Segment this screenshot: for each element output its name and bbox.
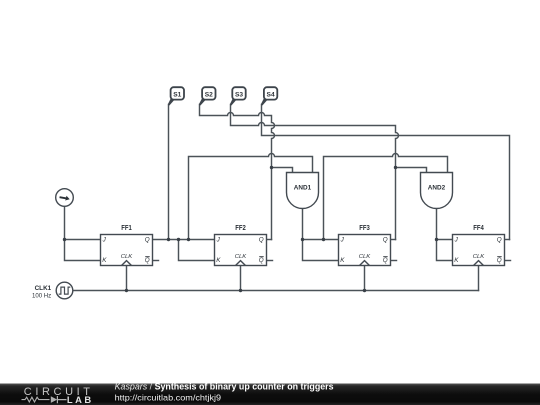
wire S2 probe to Q2 node [200, 105, 275, 240]
svg-text:FF3: FF3 [359, 225, 370, 232]
svg-text:Q: Q [497, 237, 502, 244]
svg-text:AND1: AND1 [294, 184, 312, 191]
flip-flop FF2 Qbar overline [259, 256, 264, 258]
flip-flop FF4 clock triangle [474, 261, 484, 266]
svg-text:Q: Q [259, 237, 264, 244]
svg-text:CLK: CLK [235, 254, 248, 260]
wire FF1 Qbar stub [153, 260, 159, 262]
wire FF2 CLK pin [240, 266, 242, 291]
footer CircuitLab logo text [24, 386, 92, 405]
svg-text:FF2: FF2 [235, 225, 246, 232]
wire K3 drop to FF3 K [303, 240, 339, 261]
probe S3 tail [230, 96, 237, 105]
wire FF3 CLK pin [364, 266, 366, 291]
svg-text:CLK: CLK [359, 254, 372, 260]
node J4 junction [435, 238, 438, 241]
op-amp AND2 gate body [421, 173, 453, 209]
svg-text:S2: S2 [205, 92, 213, 99]
wire source V1 to node J1 [64, 206, 66, 239]
svg-text:S4: S4 [267, 92, 275, 99]
flip-flop FF2 clock triangle [236, 261, 246, 266]
probe S3 box [232, 87, 245, 99]
footer logo diode [51, 396, 57, 403]
wire Q4 stub [505, 239, 510, 241]
svg-text:AND2: AND2 [428, 184, 446, 191]
node J1 junction [63, 238, 66, 241]
wire K2 drop to FF2 K [179, 240, 215, 261]
wire Q3 branch to AND2 left input [396, 168, 427, 173]
svg-text:Q: Q [383, 237, 388, 244]
svg-text:Q: Q [145, 237, 150, 244]
wire J1 row to FF1 J [65, 239, 101, 241]
svg-text:http://circuitlab.com/chtjkj9: http://circuitlab.com/chtjkj9 [115, 393, 222, 403]
svg-text:CLK1: CLK1 [35, 285, 52, 292]
wire S1 probe drop [168, 105, 170, 240]
flip-flop FF1 clock triangle [122, 261, 132, 266]
wire FF4 CLK pin [478, 266, 480, 291]
flip-flop FF2 box [215, 235, 267, 266]
wire Q2 stub [267, 239, 272, 241]
svg-text:Kaspars / Synthesis of binary: Kaspars / Synthesis of binary up counter… [115, 382, 334, 392]
source V1 arrow glyph [59, 196, 69, 201]
node CLK FF3 junction [363, 289, 366, 292]
wire S3 probe to Q3 node [231, 105, 399, 240]
svg-text:CLK: CLK [121, 254, 134, 260]
flip-flop FF4 box [453, 235, 505, 266]
svg-text:S3: S3 [235, 92, 243, 99]
svg-text:100 Hz: 100 Hz [32, 293, 52, 300]
svg-text:Q: Q [259, 257, 264, 264]
wire FF3 Qbar stub [391, 260, 397, 262]
clock source CLK1 squarewave glyph [59, 287, 71, 294]
flip-flop FF1 box [101, 235, 153, 266]
wire Q1 feed to AND1 right input [189, 154, 313, 240]
wire FF1 CLK pin [126, 266, 128, 291]
node AND2 feed junction [322, 238, 325, 241]
node CLK FF2 junction [239, 289, 242, 292]
flip-flop FF1 Qbar overline [145, 256, 150, 258]
svg-text:FF1: FF1 [121, 225, 132, 232]
svg-text:Q: Q [145, 257, 150, 264]
probe S2 tail [199, 96, 206, 105]
wire AND2 output to FF4 J [437, 208, 453, 239]
probe S4 box [264, 87, 277, 99]
source V1 circle [56, 189, 74, 207]
flip-flop FF3 Qbar overline [383, 256, 388, 258]
svg-text:Q: Q [383, 257, 388, 264]
op-amp AND1 gate body [287, 173, 319, 209]
wire FF4 Qbar stub [505, 260, 511, 262]
probe S2 box [202, 87, 215, 99]
wire clock rail [73, 290, 479, 292]
svg-text:Q: Q [497, 257, 502, 264]
wire AND1 output to FF3 J [303, 208, 339, 239]
wire S4 probe to Q4 node [262, 105, 510, 240]
node Q1-S1 junction [167, 238, 170, 241]
wire AND1 output feed to AND2 right input [324, 154, 448, 240]
flip-flop FF3 box [339, 235, 391, 266]
node Q2-AND1 junction [270, 166, 273, 169]
flip-flop FF3 clock triangle [360, 261, 370, 266]
probe S1 box [171, 87, 184, 99]
wire K1 drop to FF1 K [65, 240, 101, 261]
wire FF2 Qbar stub [267, 260, 273, 262]
clock source CLK1 circle [56, 282, 73, 299]
node J3 junction [301, 238, 304, 241]
footer logo resistor squiggle [22, 397, 50, 402]
flip-flop FF4 Qbar overline [497, 256, 502, 258]
footer bar [0, 384, 540, 405]
svg-text:CLK: CLK [473, 254, 486, 260]
wire Q2 branch to AND1 left input [272, 168, 293, 173]
probe S4 tail [261, 96, 268, 105]
node Q3-AND2 junction [394, 166, 397, 169]
wire K4 drop to FF4 K [437, 240, 453, 261]
svg-text:FF4: FF4 [473, 225, 484, 232]
footer title text [115, 382, 334, 403]
svg-text:LAB: LAB [67, 394, 91, 405]
node CLK FF1 junction [125, 289, 128, 292]
node Q1-AND feed junction [187, 238, 190, 241]
wire Q3 stub [391, 239, 396, 241]
probe S1 tail [168, 96, 175, 105]
node Q1-K2 junction [177, 238, 180, 241]
wire Q1 FF1 to FF2 J [153, 239, 215, 241]
svg-text:S1: S1 [173, 92, 181, 99]
